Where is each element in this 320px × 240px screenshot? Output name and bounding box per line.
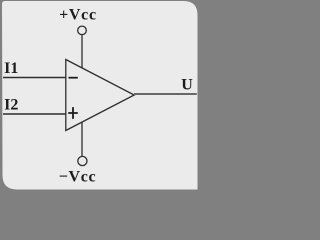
wire +Vcc to op-amp top: [81, 35, 83, 67]
inverting input minus sign: [69, 77, 78, 79]
svg-text:I2: I2: [4, 96, 18, 113]
op-amp U1 triangle: [66, 60, 134, 131]
-Vcc terminal circle: [78, 156, 87, 165]
wire I2 input: [3, 113, 66, 115]
svg-text:I1: I1: [4, 60, 18, 77]
+Vcc terminal circle: [78, 26, 87, 35]
wire output U: [134, 93, 197, 95]
wire op-amp bottom to -Vcc: [81, 122, 83, 156]
card background: [2, 1, 198, 190]
wire I1 input: [3, 77, 66, 79]
svg-text:U: U: [181, 77, 193, 94]
svg-text:+Vcc: +Vcc: [59, 6, 97, 23]
non-inverting input plus sign: [68, 107, 78, 119]
svg-text:−Vcc: −Vcc: [59, 169, 97, 186]
